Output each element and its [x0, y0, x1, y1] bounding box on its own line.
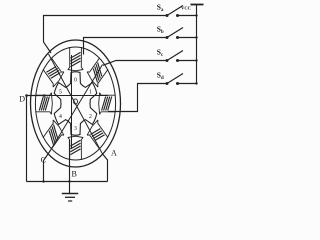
stator pole D-W	[35, 93, 52, 115]
switch Sd	[166, 74, 198, 86]
svg-text:2: 2	[89, 114, 92, 120]
winding of pole C-SW (hatch marks)	[49, 125, 58, 145]
rotor tooth numbers 0-5	[59, 77, 92, 132]
VCC rail	[196, 5, 198, 84]
svg-text:C: C	[41, 155, 46, 164]
svg-text:4: 4	[59, 114, 62, 120]
rotor (6-tooth gear)	[54, 72, 97, 135]
winding of pole A-SE (hatch marks)	[91, 129, 105, 141]
stator pole A-NW	[43, 58, 64, 87]
stator pole B-top	[68, 47, 83, 71]
ground	[62, 182, 78, 202]
svg-text:1: 1	[89, 90, 92, 96]
winding of pole D-W (hatch marks)	[39, 97, 49, 111]
svg-text:B: B	[72, 170, 77, 179]
svg-text:3: 3	[74, 126, 77, 132]
svg-text:Sc: Sc	[157, 48, 164, 59]
switch Sa	[166, 6, 198, 18]
rotor shaft hub	[74, 99, 78, 104]
svg-text:0: 0	[74, 77, 77, 83]
svg-text:D: D	[19, 94, 25, 103]
phase B interconnect line (vertical through center)	[71, 55, 73, 149]
switch Sb	[166, 28, 198, 40]
stator outer circle	[31, 40, 121, 167]
winding of pole B-top (hatch marks)	[71, 52, 81, 66]
junction dot at W pole attach	[43, 94, 45, 96]
winding of pole D-E (hatch marks)	[102, 97, 112, 111]
stator pole A-SE	[87, 120, 108, 149]
winding of pole A-NW (hatch marks)	[46, 67, 60, 79]
phase C interconnect line (NE-SW diagonal)	[50, 65, 103, 152]
phase A interconnect line (NW-SE diagonal)	[49, 54, 103, 153]
wire phase C (SW pole) to ground bus	[44, 151, 51, 182]
junction dot at C-wire / bus	[42, 180, 44, 182]
winding of pole B-bottom (hatch marks)	[71, 140, 81, 154]
wire phase D (E pole) to switch Sd	[108, 84, 167, 112]
stator pole D-E	[99, 93, 116, 115]
svg-text:VCC: VCC	[181, 6, 191, 11]
junction dot at D corner	[25, 94, 28, 97]
ground bus wire	[27, 181, 108, 183]
stator pole C-SW	[43, 120, 64, 149]
wire phase A (NW pole) to switch Sa	[44, 16, 168, 54]
wire phase B (bottom pole) to ground bus	[69, 140, 71, 182]
svg-text:Sd: Sd	[157, 71, 164, 82]
wire phase B (top pole) to switch Sb	[84, 38, 168, 55]
stator pole C-NE	[87, 58, 108, 87]
svg-text:Sa: Sa	[157, 3, 164, 14]
svg-text:Sb: Sb	[157, 25, 164, 36]
VCC T-bar	[191, 4, 204, 6]
wire phase C (NE pole) to switch Sc	[103, 61, 167, 66]
winding of pole C-NE (hatch marks)	[93, 62, 102, 82]
wire phase D (W pole) to ground bus	[27, 96, 45, 182]
phase D interconnect line (horizontal through center)	[45, 95, 109, 97]
svg-text:5: 5	[59, 90, 62, 96]
junction dot at B-wire / bus	[68, 180, 70, 182]
svg-text:A: A	[111, 148, 117, 157]
wire phase A (SE pole) to ground bus	[102, 153, 108, 181]
stator pole B-bottom	[68, 136, 83, 160]
switch Sc	[166, 51, 198, 63]
stator inner circle (yoke bore)	[35, 47, 115, 160]
